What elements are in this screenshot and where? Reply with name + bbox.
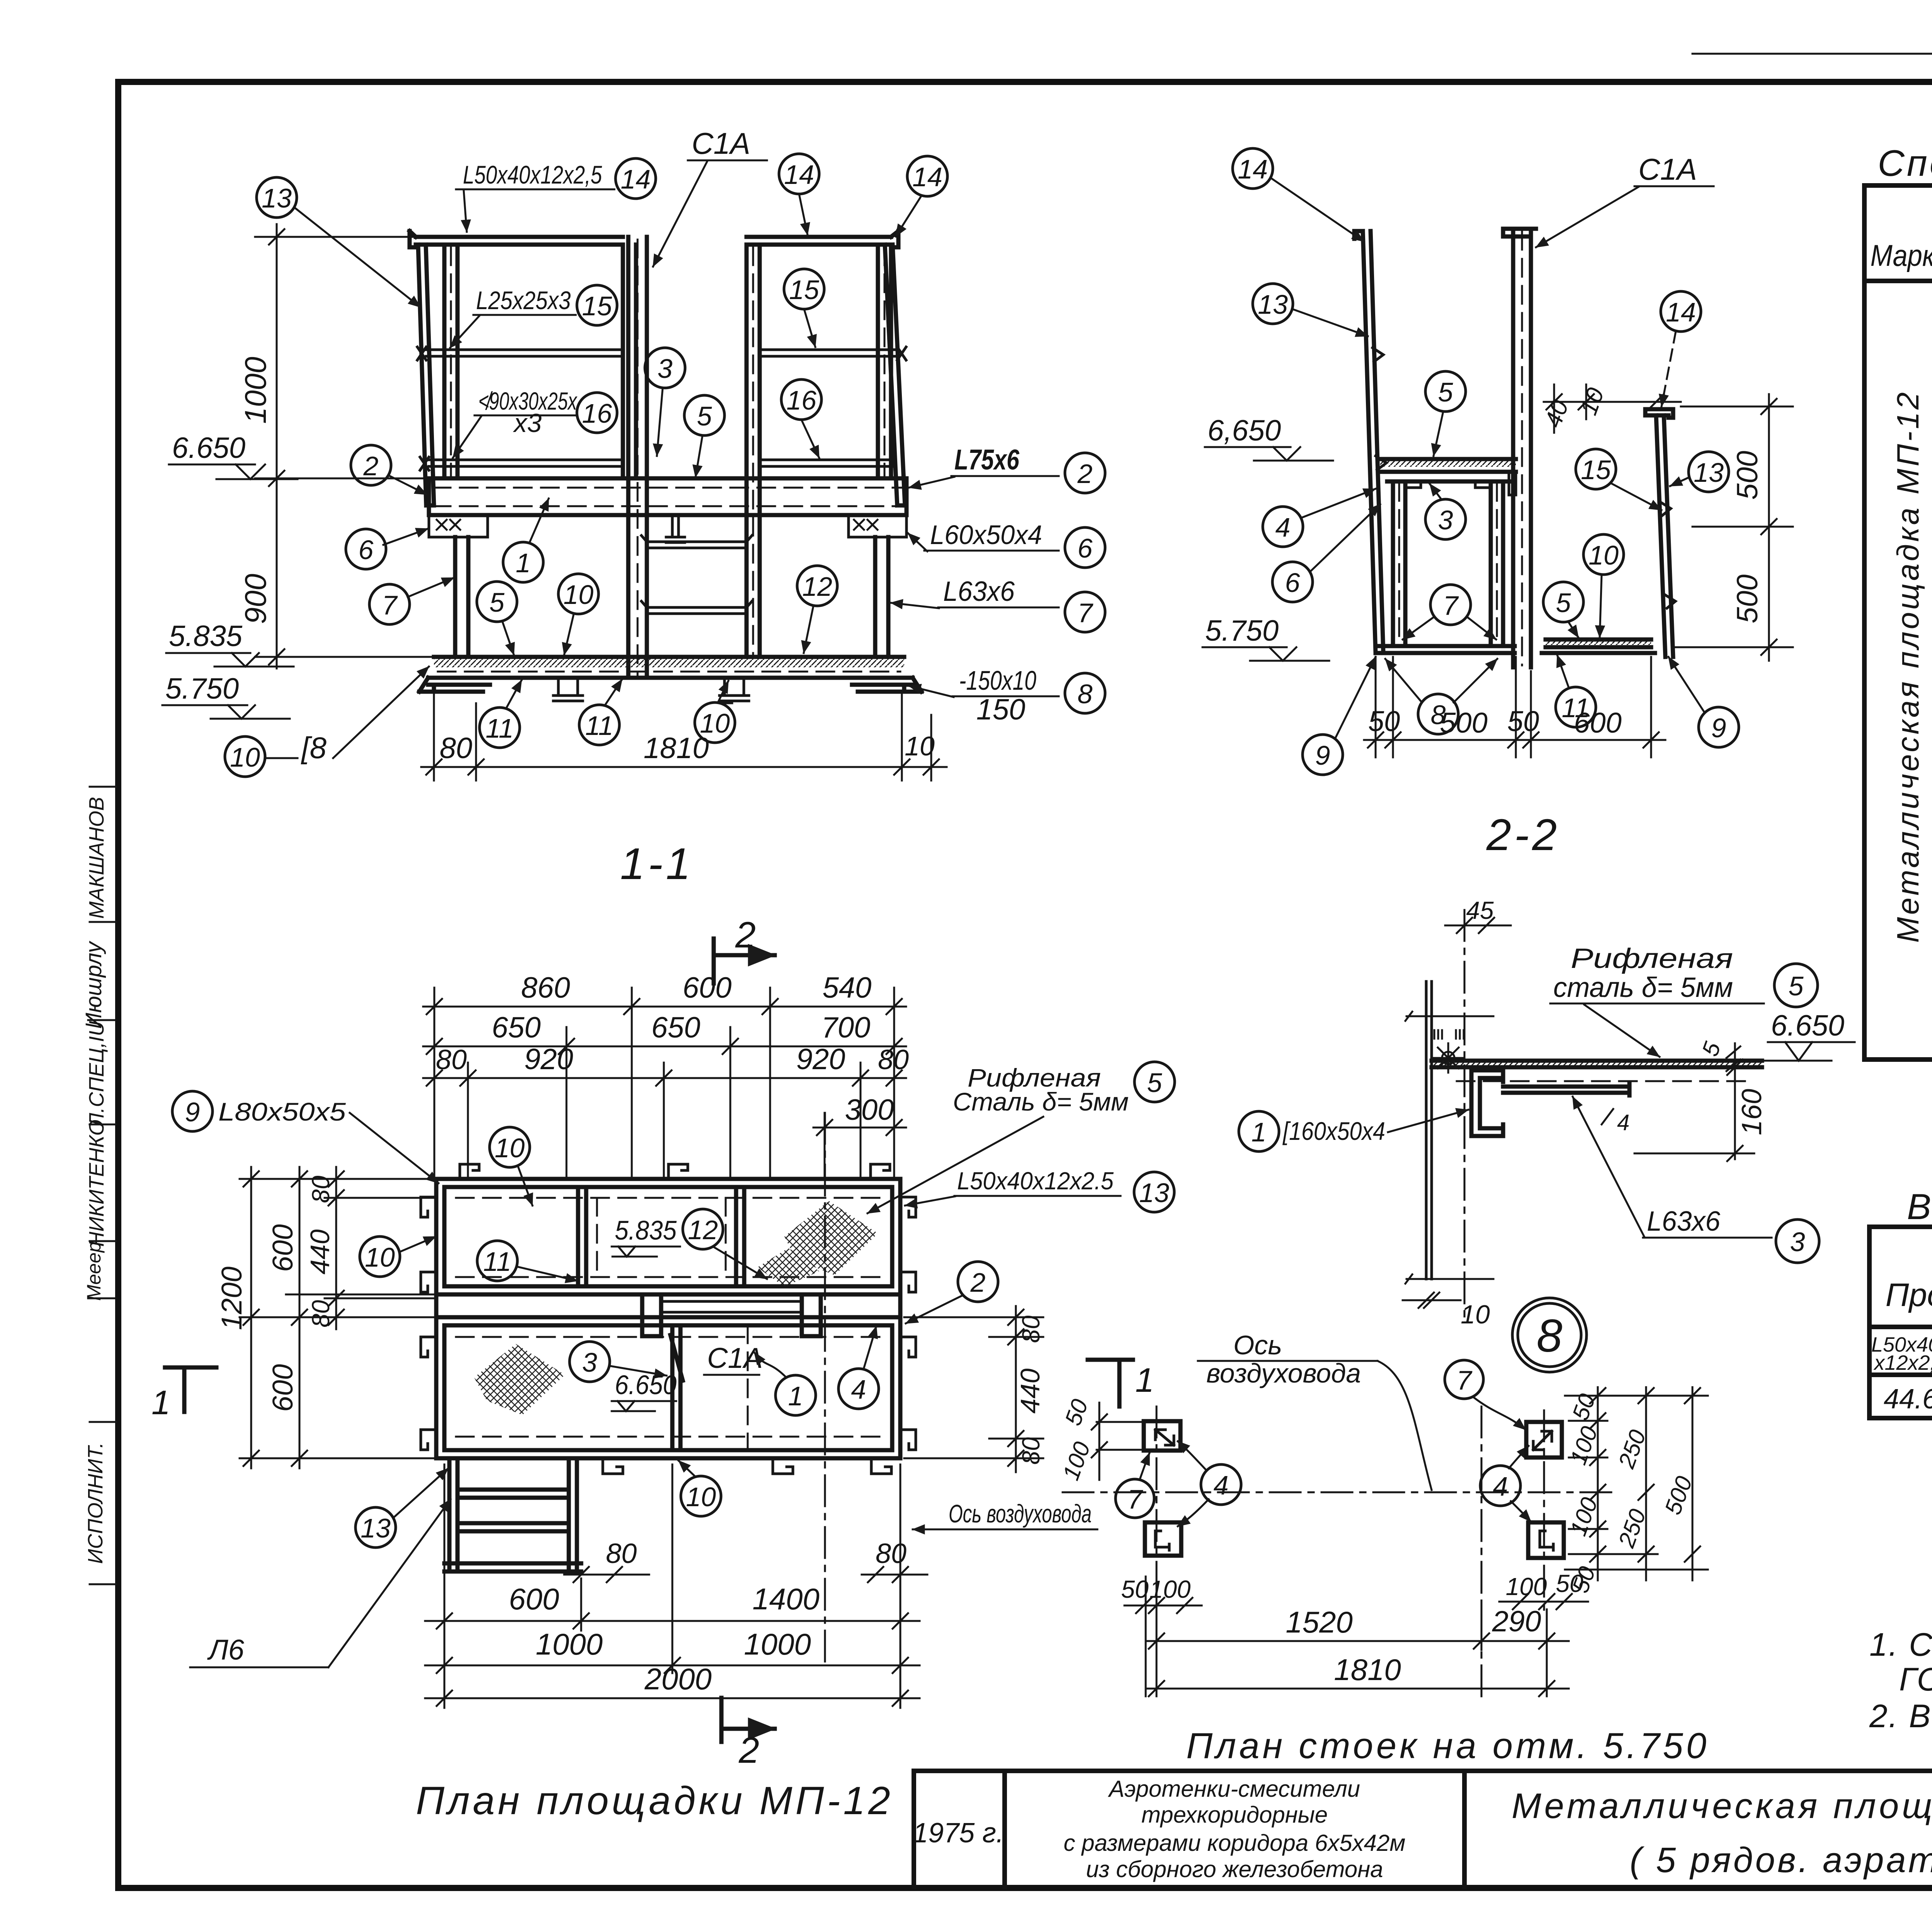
svg-text:600: 600 xyxy=(683,971,732,1004)
svg-text:4: 4 xyxy=(1617,1110,1629,1135)
upper band dashed inner xyxy=(456,1198,881,1277)
svg-text:2: 2 xyxy=(738,1730,759,1771)
lower band dashed inner xyxy=(456,1337,881,1437)
left margin stamp texts xyxy=(81,797,108,1564)
lower post poz7 left xyxy=(455,537,468,657)
weld crosses right xyxy=(854,520,878,530)
svg-text:2-2: 2-2 xyxy=(1486,810,1560,860)
svg-text:8: 8 xyxy=(1537,1310,1563,1362)
svg-text:650: 650 xyxy=(651,1011,701,1044)
spec header labels xyxy=(1871,191,1932,286)
svg-text:600: 600 xyxy=(509,1582,559,1616)
left guard rail 13 xyxy=(418,245,434,505)
svg-text:Марка: Марка xyxy=(1871,238,1932,272)
svg-text:1: 1 xyxy=(516,548,531,578)
svg-text:600: 600 xyxy=(267,1224,299,1272)
svg-text:440: 440 xyxy=(1015,1369,1045,1414)
svg-text:80: 80 xyxy=(307,1300,335,1328)
svg-text:3: 3 xyxy=(582,1347,597,1378)
cut mark 2 bottom xyxy=(721,1698,775,1742)
svg-text:Рифленая: Рифленая xyxy=(1571,943,1733,974)
svg-text:воздуховода: воздуховода xyxy=(1206,1358,1361,1388)
bracket poz6 right xyxy=(849,515,906,537)
top dim row 1 xyxy=(423,999,906,1014)
right guard rail 2-2 xyxy=(1656,415,1673,657)
upper band dividers xyxy=(578,1187,744,1286)
svg-text:14: 14 xyxy=(912,162,942,192)
plan upper band outline xyxy=(436,1179,900,1294)
svg-text:7: 7 xyxy=(1457,1365,1473,1395)
svg-text:Спецификация металла на 1 м: Спецификация металла на 1 марку xyxy=(1878,143,1932,184)
axes xyxy=(1063,1492,1617,1493)
svg-text:11: 11 xyxy=(1562,693,1590,723)
svg-text:860: 860 xyxy=(521,971,570,1004)
rail stiffener marks xyxy=(1372,348,1386,470)
column web double line xyxy=(1426,981,1432,1279)
svg-text:L75х6: L75х6 xyxy=(954,444,1020,476)
balloon 8 double xyxy=(1512,1298,1587,1372)
left balloon 7 xyxy=(1116,1479,1154,1518)
svg-text:МАКШАНОВ: МАКШАНОВ xyxy=(85,797,108,919)
ladder rung 1 xyxy=(641,536,752,548)
left centerline xyxy=(1156,1406,1158,1584)
svg-text:L50х40х12х2,5: L50х40х12х2,5 xyxy=(463,160,602,189)
dim 40/10 top xyxy=(1544,384,1681,433)
floor 2-2 right part xyxy=(1542,639,1655,653)
floor feet channels xyxy=(553,678,583,701)
svg-text:80: 80 xyxy=(1017,1315,1045,1343)
axis line vertical xyxy=(824,1113,826,1665)
weld ticks on column xyxy=(1434,1030,1464,1039)
svg-text:трехкоридорные: трехкоридорные xyxy=(1141,1802,1328,1828)
plan edge channel clips xyxy=(421,1164,916,1474)
svg-text:С1А: С1А xyxy=(1638,152,1697,186)
weld crosses left xyxy=(437,520,460,530)
scan fold line top xyxy=(1692,53,1932,55)
cut mark 2 top xyxy=(714,939,775,983)
svg-text:2. Все сварные швы h= 4 м: 2. Все сварные швы h= 4 мм. xyxy=(1869,1698,1932,1734)
svg-text:12: 12 xyxy=(688,1215,718,1245)
svg-text:10: 10 xyxy=(1461,1300,1490,1329)
right top angle xyxy=(1645,409,1673,418)
svg-text:44.6: 44.6 xyxy=(1884,1384,1932,1415)
svg-text:9: 9 xyxy=(1711,713,1726,743)
top rail right unit xyxy=(747,231,898,247)
svg-text:2: 2 xyxy=(735,915,756,956)
svg-text:5: 5 xyxy=(1147,1068,1163,1098)
bottom dim 80/1810/10 xyxy=(421,692,947,781)
lower shelf left xyxy=(420,457,623,470)
cut mark 1 right xyxy=(1088,1360,1133,1406)
mid shelf left xyxy=(417,347,623,360)
svg-text:50: 50 xyxy=(1121,1575,1149,1603)
svg-text:16: 16 xyxy=(786,385,816,415)
svg-text:4: 4 xyxy=(1214,1470,1229,1500)
svg-text:15: 15 xyxy=(789,275,820,305)
svg-text:10: 10 xyxy=(700,708,730,738)
extension verticals xyxy=(434,988,894,1179)
svg-text:540: 540 xyxy=(823,971,872,1004)
spec table grid xyxy=(1864,185,1932,1060)
left lower anchor square xyxy=(1145,1522,1181,1556)
svg-text:80: 80 xyxy=(436,1044,467,1075)
svg-text:1: 1 xyxy=(1252,1117,1267,1147)
svg-text:7: 7 xyxy=(382,590,398,620)
svg-text:Выборка металла на площадку: Выборка металла на площадку МП-12 xyxy=(1907,1186,1932,1227)
bracket L63x6 xyxy=(1503,1084,1629,1095)
svg-text:План площадки МП-12: План площадки МП-12 xyxy=(416,1779,893,1823)
svg-text:7: 7 xyxy=(1128,1484,1144,1514)
lower anchor square xyxy=(1528,1522,1564,1558)
svg-text:ИСПОЛНИТ.: ИСПОЛНИТ. xyxy=(84,1442,107,1564)
svg-text:4: 4 xyxy=(1493,1471,1508,1502)
svg-text:5: 5 xyxy=(1556,588,1571,618)
svg-text:1-1: 1-1 xyxy=(620,839,694,889)
lower shelf right xyxy=(760,460,895,466)
svg-text:440: 440 xyxy=(305,1230,335,1275)
svg-text:из сборного железобетона: из сборного железобетона xyxy=(1086,1856,1383,1882)
svg-text:50: 50 xyxy=(1368,705,1400,737)
lower hatch patch xyxy=(474,1344,565,1415)
svg-text:14: 14 xyxy=(784,160,814,190)
ladder rung 2 xyxy=(641,601,752,614)
svg-text:10: 10 xyxy=(905,731,935,761)
svg-text:10: 10 xyxy=(495,1133,525,1163)
svg-text:5: 5 xyxy=(490,587,505,617)
svg-text:1975 г.: 1975 г. xyxy=(913,1818,1004,1849)
svg-text:10: 10 xyxy=(1588,540,1619,570)
dim 1000/900 line xyxy=(255,224,433,668)
svg-text:300: 300 xyxy=(845,1094,894,1126)
svg-text:15: 15 xyxy=(582,291,612,321)
svg-text:1000: 1000 xyxy=(238,357,272,424)
svg-text:Металлическая площадка МП-12: Металлическая площадка МП-12 xyxy=(1512,1786,1932,1826)
small dims right of squares xyxy=(1565,1387,1708,1580)
svg-text:80: 80 xyxy=(1017,1437,1045,1465)
svg-text:5.835: 5.835 xyxy=(169,620,243,653)
top dim row 4 (300) xyxy=(813,1120,906,1135)
svg-text:500: 500 xyxy=(1731,451,1764,500)
svg-text:11: 11 xyxy=(585,711,614,741)
svg-text:1000: 1000 xyxy=(536,1627,603,1661)
plan labels xyxy=(172,1091,213,1131)
svg-text:6.650: 6.650 xyxy=(172,432,245,464)
support legs xyxy=(642,1298,821,1336)
svg-text:9: 9 xyxy=(1315,740,1330,770)
svg-text:С1А: С1А xyxy=(692,126,750,160)
svg-text:14: 14 xyxy=(621,164,651,194)
svg-text:L50х40х12х2.5: L50х40х12х2.5 xyxy=(957,1167,1114,1195)
svg-text:2: 2 xyxy=(363,451,379,481)
svg-text:500: 500 xyxy=(1731,575,1764,624)
svg-text:13: 13 xyxy=(361,1513,391,1543)
svg-text:150: 150 xyxy=(976,693,1026,726)
right guard rail xyxy=(885,245,905,505)
middle strip xyxy=(436,1294,900,1325)
svg-text:L25х25х3: L25х25х3 xyxy=(476,286,571,315)
floor 2-2 left part xyxy=(1376,646,1515,653)
floor plate xyxy=(1432,1061,1762,1067)
svg-text:8: 8 xyxy=(1431,700,1446,730)
post P3 xyxy=(747,245,760,657)
left dims xyxy=(240,1167,435,1468)
svg-text:6.650: 6.650 xyxy=(1771,1009,1844,1042)
svg-text:Ось: Ось xyxy=(1233,1330,1282,1360)
svg-text:Л6: Л6 xyxy=(207,1634,245,1666)
svg-text:L80х50х5: L80х50х5 xyxy=(218,1097,346,1126)
svg-text:45: 45 xyxy=(1466,896,1494,924)
left upper anchor square xyxy=(1144,1421,1180,1451)
bottom dims 50/500/50/600 xyxy=(1364,657,1665,757)
svg-text:х12х2,5: х12х2,5 xyxy=(1873,1351,1932,1374)
svg-text:сталь δ= 5мм: сталь δ= 5мм xyxy=(1553,972,1733,1003)
dim 10 bottom xyxy=(1403,1293,1461,1308)
level 5.750 xyxy=(162,672,290,719)
svg-text:13: 13 xyxy=(262,183,292,213)
platform beam poz1 xyxy=(429,478,906,515)
svg-text:1: 1 xyxy=(151,1383,170,1422)
box under platform xyxy=(1387,481,1509,646)
svg-text:L63х6: L63х6 xyxy=(943,576,1015,607)
svg-text:8: 8 xyxy=(1078,679,1093,709)
dim 500/500 right xyxy=(1673,394,1793,661)
svg-text:80: 80 xyxy=(876,1538,906,1569)
label 1 [160x50x4 xyxy=(1239,1111,1279,1151)
labels and balloons 1-1 xyxy=(225,126,1105,777)
column end ticks xyxy=(1405,1012,1493,1284)
svg-text:1000: 1000 xyxy=(744,1627,811,1661)
floor band xyxy=(434,657,904,678)
svg-text:L63х6: L63х6 xyxy=(1647,1206,1721,1237)
svg-text:12: 12 xyxy=(802,571,832,602)
svg-text:-150х10: -150х10 xyxy=(959,665,1036,696)
svg-text:Ось воздуховода: Ось воздуховода xyxy=(949,1499,1092,1528)
lower band divider / cut xyxy=(672,1325,680,1450)
svg-text:5.750: 5.750 xyxy=(165,672,239,705)
svg-text:14: 14 xyxy=(1238,154,1268,184)
svg-text:Июшрлу: Июшрлу xyxy=(81,940,106,1029)
top rail left unit xyxy=(410,231,623,247)
svg-text:10: 10 xyxy=(365,1242,395,1272)
svg-text:15: 15 xyxy=(1581,455,1611,485)
top dim row 2 xyxy=(423,1039,906,1054)
svg-text:3: 3 xyxy=(658,354,673,384)
svg-text:[8: [8 xyxy=(301,731,327,765)
svg-text:10: 10 xyxy=(563,580,594,610)
C1A cut slash xyxy=(670,1335,683,1381)
hanger bolt under beam xyxy=(666,515,685,543)
dim 45 top xyxy=(1445,918,1511,933)
svg-text:290: 290 xyxy=(1492,1605,1541,1638)
svg-text:1. Сварку производить электр: 1. Сварку производить электродами э-42 xyxy=(1869,1626,1932,1663)
svg-text:2000: 2000 xyxy=(644,1662,712,1696)
svg-text:3: 3 xyxy=(1438,505,1453,535)
svg-text:7: 7 xyxy=(1078,598,1094,628)
svg-text:2: 2 xyxy=(970,1267,986,1298)
svg-text:5.750: 5.750 xyxy=(1205,614,1279,647)
level 6.650 xyxy=(169,432,298,479)
upper hatch patch xyxy=(784,1201,878,1275)
svg-text:650: 650 xyxy=(492,1011,541,1044)
svg-text:600: 600 xyxy=(267,1364,299,1412)
left balloon 4 xyxy=(1201,1464,1241,1505)
svg-text:( 5 рядов. аэраторов): ( 5 рядов. аэраторов) xyxy=(1630,1840,1932,1880)
left guard rail xyxy=(1354,231,1383,653)
post P1 xyxy=(444,245,457,478)
svg-text:L60х50х4: L60х50х4 xyxy=(930,520,1042,550)
svg-text:1: 1 xyxy=(788,1381,803,1411)
svg-text:50: 50 xyxy=(1556,1570,1583,1597)
svg-text:ГОСТ 9467-60.: ГОСТ 9467-60. xyxy=(1899,1661,1932,1697)
svg-text:13: 13 xyxy=(1139,1178,1169,1208)
svg-text:6: 6 xyxy=(1078,533,1093,563)
bottom small dims xyxy=(1124,1594,1588,1613)
center column C1A 2-2 xyxy=(1503,229,1536,667)
svg-text:1200: 1200 xyxy=(216,1267,248,1330)
base plate poz8 left xyxy=(419,678,490,692)
svg-text:Л.СПЕЦ,IU: Л.СПЕЦ,IU xyxy=(85,1021,108,1128)
svg-text:С1А: С1А xyxy=(707,1342,763,1374)
svg-text:160: 160 xyxy=(1736,1089,1767,1135)
bracket poz6 left xyxy=(429,515,488,537)
platform strip 2-2 xyxy=(1380,459,1516,472)
svg-text:4: 4 xyxy=(851,1374,866,1405)
svg-text:Мееер: Мееер xyxy=(83,1242,105,1301)
mid shelf right xyxy=(760,347,906,360)
cut mark 1 left xyxy=(165,1367,216,1412)
svg-text:16: 16 xyxy=(582,398,612,429)
svg-text:1: 1 xyxy=(1135,1361,1154,1399)
post P2 xyxy=(623,245,636,478)
svg-text:13: 13 xyxy=(1258,289,1288,320)
svg-text:5: 5 xyxy=(697,401,713,431)
svg-text:4: 4 xyxy=(1276,512,1291,543)
svg-text:1810: 1810 xyxy=(1334,1653,1401,1687)
svg-text:80: 80 xyxy=(606,1538,637,1569)
svg-text:920: 920 xyxy=(796,1043,845,1076)
svg-text:10: 10 xyxy=(686,1482,716,1512)
svg-text:1520: 1520 xyxy=(1286,1605,1353,1639)
balloons 2-2 xyxy=(1233,148,1739,775)
svg-text:5.835: 5.835 xyxy=(615,1215,677,1245)
svg-text:10: 10 xyxy=(230,742,260,772)
svg-text:3: 3 xyxy=(1790,1227,1805,1257)
svg-text:6,650: 6,650 xyxy=(1207,414,1281,447)
dim 1520/290 xyxy=(1146,1577,1569,1696)
balloon 4 xyxy=(1480,1466,1520,1506)
svg-text:1400: 1400 xyxy=(752,1582,820,1616)
level 5.835 xyxy=(166,620,294,667)
column axis xyxy=(1464,910,1466,1321)
left pair small dims xyxy=(1092,1403,1146,1480)
lower band outline xyxy=(436,1317,900,1458)
dim 160 xyxy=(1634,1060,1754,1161)
svg-text:700: 700 xyxy=(821,1011,871,1044)
bottom dims xyxy=(425,1464,927,1708)
upper anchor square xyxy=(1526,1422,1562,1458)
lower post poz7 right xyxy=(875,537,888,657)
svg-text:50: 50 xyxy=(1507,705,1539,737)
svg-text:6.650: 6.650 xyxy=(615,1370,677,1400)
svg-text:Прокат: Прокат xyxy=(1886,1277,1932,1313)
svg-text:2: 2 xyxy=(1077,459,1093,489)
svg-text:5: 5 xyxy=(1789,971,1804,1001)
svg-text:900: 900 xyxy=(238,574,272,624)
svg-text:13: 13 xyxy=(1694,457,1724,488)
weld star xyxy=(1434,1043,1463,1073)
top dim row 3 xyxy=(423,1070,906,1086)
balloon 7 xyxy=(1445,1360,1483,1399)
svg-text:Аэротенки-смесители: Аэротенки-смесители xyxy=(1108,1776,1360,1802)
svg-text:Сталь δ= 5мм: Сталь δ= 5мм xyxy=(953,1087,1129,1116)
svg-text:НИКИТЕНКО: НИКИТЕНКО xyxy=(85,1119,108,1247)
svg-text:6: 6 xyxy=(359,535,374,565)
svg-text:Металлическая площадка МП-12: Металлическая площадка МП-12 xyxy=(1891,390,1925,943)
runner between legs xyxy=(661,1301,802,1312)
base plate poz8 right xyxy=(852,678,922,692)
svg-text:План стоек на отм. 5.750: План стоек на отм. 5.750 xyxy=(1186,1725,1709,1766)
svg-text:14: 14 xyxy=(1666,297,1696,327)
svg-text:100: 100 xyxy=(1506,1573,1547,1600)
right dims xyxy=(904,1306,1043,1472)
channel [160x50x4 xyxy=(1471,1070,1503,1136)
small corner angles on box xyxy=(1405,472,1516,495)
svg-text:80: 80 xyxy=(440,732,473,765)
center column C1A xyxy=(628,237,647,678)
svg-text:[160х50х4: [160х50х4 xyxy=(1282,1117,1385,1145)
svg-text:80: 80 xyxy=(307,1175,335,1203)
svg-text:с размерами коридора 6х5х42м: с размерами коридора 6х5х42м xyxy=(1064,1830,1406,1856)
post P4 xyxy=(878,245,891,478)
svg-text:7: 7 xyxy=(1443,590,1459,621)
svg-text:5: 5 xyxy=(1438,377,1454,407)
stairs extension xyxy=(444,1458,581,1571)
svg-text:9: 9 xyxy=(185,1097,200,1127)
svg-text:11: 11 xyxy=(483,1247,512,1277)
svg-text:6: 6 xyxy=(1285,568,1300,598)
svg-text:х3: х3 xyxy=(513,408,542,438)
svg-text:500: 500 xyxy=(1440,707,1487,739)
svg-text:11: 11 xyxy=(486,713,514,743)
